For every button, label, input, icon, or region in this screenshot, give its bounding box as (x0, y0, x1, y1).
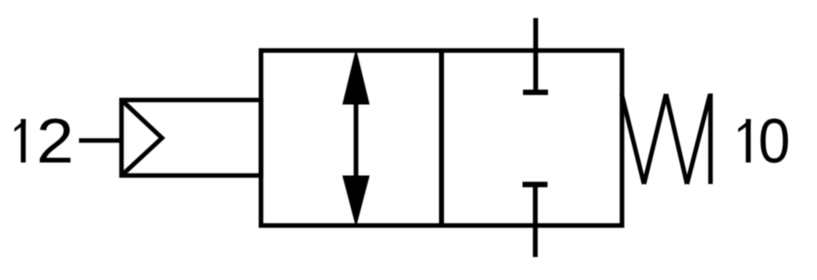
return spring 10 (622, 94, 711, 185)
blocked port T (top, right square) (523, 18, 548, 92)
valve position divider (439, 51, 444, 226)
port label 12 (14, 107, 74, 177)
flow path arrow (double-headed, left square) (343, 51, 369, 226)
svg-text:0: 0 (758, 107, 790, 177)
wire from label 12 to pilot (79, 138, 123, 143)
pneumatic pilot actuator box 12 (122, 100, 262, 176)
valve body left square (position a) (261, 51, 622, 226)
svg-text:2: 2 (36, 107, 74, 177)
blocked port T (bottom, right square) (523, 185, 548, 258)
port label 10 (738, 107, 790, 177)
pilot triangle (pneumatic) (122, 100, 163, 176)
